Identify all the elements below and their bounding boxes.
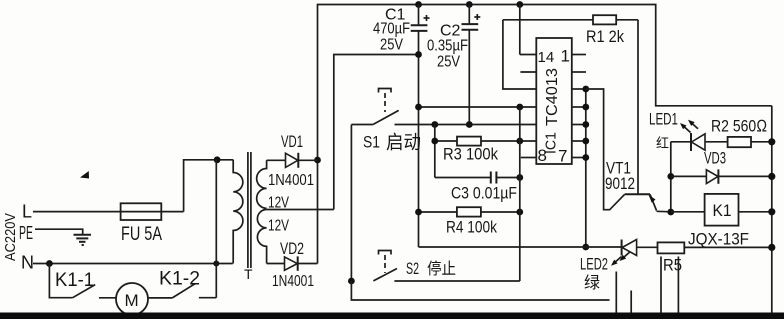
wire R1 to pin12: [503, 20, 536, 89]
wire top +V rail: [318, 5, 772, 161]
node C1 0V-rail junction: [415, 51, 422, 58]
value label 12V lower: [268, 218, 289, 235]
pin label 14: [538, 49, 555, 66]
wire LED2 lead down 2: [630, 291, 632, 314]
svg-text:R4 100k: R4 100k: [446, 218, 497, 237]
wire pin4 stub: [572, 106, 586, 108]
node R3 right junction: [516, 138, 523, 145]
wire S1 S2 common vertical: [350, 125, 352, 282]
svg-text:LED1: LED1: [649, 110, 678, 129]
resistor R1: [503, 15, 638, 24]
wire R5 lead down 2: [677, 257, 679, 314]
pin label 8: [538, 146, 547, 165]
svg-text:25V: 25V: [437, 54, 460, 71]
value label 12V upper: [268, 195, 289, 212]
LED LED2: [622, 240, 658, 256]
node top rail C2 junction: [466, 1, 473, 8]
terminal label N: [21, 253, 34, 273]
node C3 right junction: [516, 174, 523, 181]
capacitor C1: [411, 5, 430, 31]
ground: [74, 235, 92, 245]
node LED1 row right rail: [768, 138, 775, 145]
svg-text:14: 14: [538, 49, 555, 66]
svg-text:T: T: [244, 266, 253, 282]
svg-text:0.35µF: 0.35µF: [427, 38, 468, 55]
resistor R4: [419, 207, 520, 216]
value label R4 100k: [446, 218, 497, 237]
svg-text:红: 红: [656, 136, 669, 151]
wire pin6 stub: [572, 140, 586, 142]
wire C1 negative down to LED2 row: [418, 31, 420, 247]
wire fuse up to transformer: [184, 160, 234, 212]
value label VD2: [280, 239, 304, 258]
wire pin2 stub: [572, 71, 586, 73]
svg-text:AC220V: AC220V: [2, 213, 19, 261]
relay K1: [671, 194, 772, 226]
node bus pin6: [582, 138, 589, 145]
wire pin9-pin8 S2 vertical: [519, 107, 521, 281]
capacitor C3: [435, 172, 520, 184]
node VD3 right rail: [768, 173, 775, 180]
node bus pin5: [582, 121, 589, 128]
value label S1: [363, 133, 380, 152]
wire right +V rail: [771, 106, 773, 313]
terminal label PE: [19, 223, 33, 243]
wire 0V rail to C1: [334, 55, 419, 210]
value label VD1: [281, 132, 303, 151]
LED1 arrows: [680, 120, 698, 133]
wire pin3 stub: [572, 88, 586, 90]
capacitor C2: [462, 5, 481, 30]
value label green: [584, 274, 600, 292]
node N K1-2 crossing blob: [213, 261, 219, 267]
wire bus to VT1 collector: [586, 89, 625, 210]
svg-text:R1 2k: R1 2k: [586, 27, 624, 46]
svg-text:R2 560Ω: R2 560Ω: [711, 117, 767, 136]
node N K1-1 junction: [46, 260, 53, 267]
svg-text:K1-2: K1-2: [159, 269, 200, 290]
node top rail C1 junction: [415, 1, 422, 8]
wire pin8 stub: [521, 157, 537, 159]
value label VD3: [704, 149, 726, 168]
node S2 left junction: [348, 278, 355, 285]
node VD3 left: [667, 173, 674, 180]
wire N row: [33, 263, 233, 265]
value label red: [656, 136, 669, 151]
wire pin1 stub: [572, 54, 586, 56]
switch K1-1: [49, 264, 116, 298]
value label C3 0.01uF: [451, 184, 517, 203]
node row A bus junction: [516, 104, 523, 111]
svg-text:启动: 启动: [386, 132, 421, 154]
svg-text:K1-1: K1-1: [55, 270, 94, 291]
svg-text:VD2: VD2: [280, 239, 304, 258]
svg-text:25V: 25V: [380, 37, 403, 54]
transformer T secondary winding lower: [257, 210, 266, 264]
value label K1-1: [55, 270, 94, 291]
resistor R5: [658, 242, 772, 253]
svg-text:C3 0.01µF: C3 0.01µF: [451, 184, 517, 203]
node bus LED2 row: [582, 244, 589, 251]
ink smudge artifact: [80, 171, 89, 179]
svg-text:470µF: 470µF: [373, 21, 410, 38]
wire output bus vertical: [585, 89, 587, 247]
transistor Q1 VT1 base bar: [625, 193, 650, 195]
value label K1-2: [159, 269, 200, 290]
value label qidong: [386, 132, 421, 154]
transformer T primary winding: [233, 160, 243, 264]
value label LED1: [649, 110, 678, 129]
node row A left junction: [415, 104, 422, 111]
wire R3 C3 left branch: [434, 125, 436, 178]
switch S1: [351, 89, 398, 125]
switch S2: [373, 251, 519, 282]
svg-text:1N4001: 1N4001: [268, 172, 314, 189]
value label C2: [427, 23, 468, 71]
svg-text:12V: 12V: [268, 218, 289, 235]
value label 1N4001 upper: [268, 172, 314, 189]
wire pin14 feed from top rail: [520, 5, 537, 55]
svg-text:IC1: IC1: [543, 132, 560, 154]
wire pin7 stub: [572, 157, 586, 159]
svg-text:M: M: [125, 291, 139, 310]
wire R1 to VT1 base: [637, 20, 639, 195]
node R4 left junction: [415, 209, 422, 216]
node R3 left junction: [431, 138, 438, 145]
value label FU 5A: [121, 224, 162, 245]
svg-text:绿: 绿: [584, 274, 600, 292]
svg-text:TC4013: TC4013: [544, 68, 561, 126]
op-amp U1 IC1 TC4013 box: [536, 38, 572, 164]
node bus pin4: [582, 104, 589, 111]
LED LED1: [671, 133, 728, 151]
svg-text:S1: S1: [363, 133, 380, 152]
value label S2: [406, 259, 419, 278]
value label R2 560ohm: [711, 117, 767, 136]
terminal label AC220V rotated: [2, 213, 19, 261]
svg-text:N: N: [21, 253, 34, 273]
svg-text:1: 1: [561, 47, 570, 66]
node VD1 cathode junction: [314, 157, 321, 164]
diode VD2: [267, 256, 318, 270]
resistor R3: [435, 137, 537, 146]
svg-text:S2: S2: [406, 259, 419, 278]
svg-text:JQX-13F: JQX-13F: [688, 231, 749, 249]
LED2 arrows: [611, 252, 630, 266]
svg-text:K1: K1: [713, 201, 732, 220]
svg-text:12V: 12V: [268, 195, 289, 212]
wire pin5 stub: [572, 124, 586, 126]
value label C1: [373, 7, 410, 54]
value label T: [244, 266, 253, 282]
wire row A (pin11): [419, 106, 537, 108]
value label tingzhi: [427, 260, 456, 278]
node row B R3 branch junction: [431, 121, 438, 128]
wire pin13 stub: [520, 71, 536, 73]
bottom crop bar: [0, 313, 784, 320]
svg-text:PE: PE: [19, 223, 33, 243]
svg-text:VD1: VD1: [281, 132, 303, 151]
value label R5: [663, 256, 682, 275]
motor M: [116, 283, 148, 315]
svg-text:FU 5A: FU 5A: [121, 224, 162, 245]
value label VT1 9012: [605, 159, 635, 194]
node R5 right rail: [768, 244, 775, 251]
svg-text:9012: 9012: [605, 174, 635, 193]
diode VD1: [267, 153, 318, 168]
wire row B (pin10) from S1: [395, 124, 537, 126]
fuse FU: [121, 203, 184, 220]
wire transformer center tap: [267, 209, 334, 211]
svg-text:1N4001: 1N4001: [272, 273, 314, 290]
value label LED2: [580, 255, 608, 274]
value label 1N4001 lower: [272, 273, 314, 290]
terminal label L: [22, 202, 32, 222]
value label R1 2k: [586, 27, 624, 46]
transformer T secondary winding upper: [257, 160, 267, 208]
value label R3 100k: [443, 145, 498, 164]
node L primary junction: [214, 156, 221, 163]
wire C2 negative down to row B: [468, 30, 470, 125]
svg-text:停止: 停止: [427, 260, 456, 278]
node K1 left: [667, 209, 674, 216]
svg-text:VD3: VD3: [704, 149, 726, 168]
svg-text:LED2: LED2: [580, 255, 608, 274]
wire VD1 VD2 cathode vertical: [317, 160, 319, 264]
wire R5 lead down: [660, 257, 662, 314]
svg-text:L: L: [22, 202, 32, 222]
wire S2 bottom common: [351, 281, 609, 300]
node bus pin7: [582, 154, 589, 161]
diode VD3: [671, 169, 772, 183]
wire K1-2 up to L junction: [215, 160, 217, 298]
wire LED2 lead down: [615, 272, 617, 314]
svg-text:R3 100k: R3 100k: [443, 145, 498, 164]
resistor R2: [728, 137, 772, 147]
node K1 right rail: [768, 208, 775, 215]
node row B C2 junction: [466, 121, 473, 128]
node R4 right junction: [516, 209, 523, 216]
wire LED1 VD3 K1 left vertical: [670, 142, 672, 212]
transformer T core: [248, 152, 251, 268]
pin label 7: [558, 147, 567, 166]
pin label 1: [561, 47, 570, 66]
node bus pin3: [582, 86, 589, 93]
value label JQX-13F: [688, 231, 749, 249]
node top rail pin14 junction: [516, 1, 523, 8]
wire LED2 row left: [419, 246, 622, 248]
wire L terminal: [33, 211, 121, 213]
wire PE: [35, 229, 83, 235]
value label IC1 TC4013 rotated: [543, 68, 562, 154]
switch K1-2: [149, 284, 217, 298]
transistor VT1 emitter with arrow: [649, 194, 671, 212]
